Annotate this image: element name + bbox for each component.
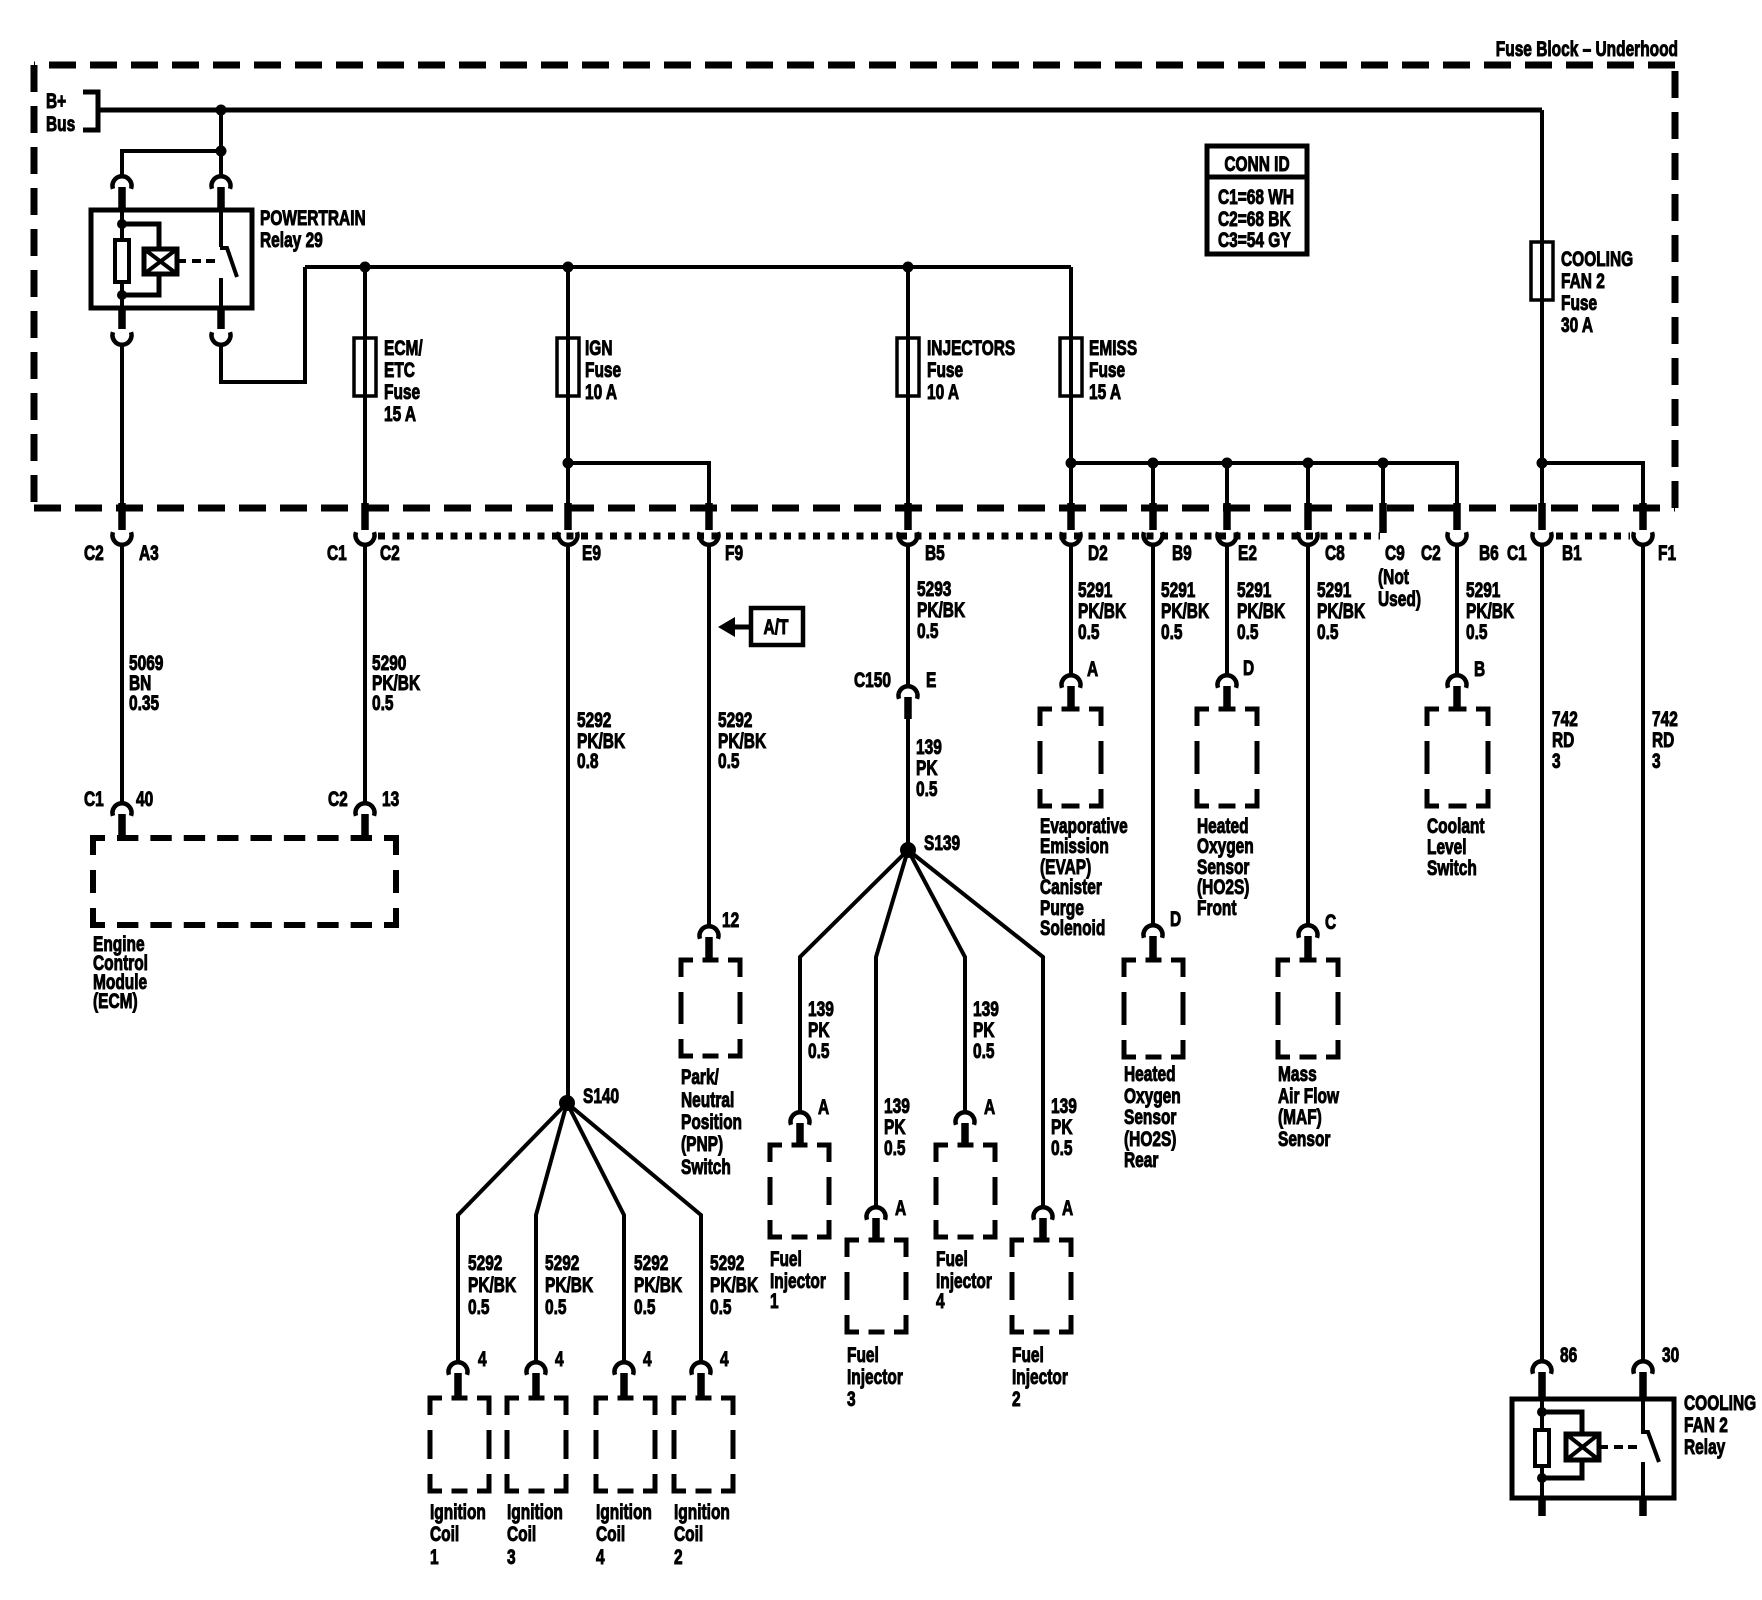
connector fuel injector 2 pin A: [1034, 1195, 1074, 1241]
svg-text:Ignition: Ignition: [674, 1499, 730, 1523]
connector fan relay pin 30: [1634, 1342, 1680, 1400]
svg-text:B9: B9: [1172, 540, 1192, 564]
connector ignition coil 2 pin 4: [692, 1346, 730, 1399]
svg-text:Fuel: Fuel: [770, 1246, 802, 1270]
label Fuel Injector 3: [847, 1342, 903, 1410]
wire S139 to fuel injector 3: [876, 850, 908, 1207]
label Fuel Injector 2: [1012, 1342, 1068, 1410]
label wire 139 PK 0.5 injector 4: [973, 996, 999, 1062]
connector pin D2 boundary: [1062, 503, 1108, 565]
relay 29 actuator dashed link: [177, 259, 186, 263]
svg-text:Fuel: Fuel: [1012, 1342, 1044, 1366]
MAF sensor box: [1278, 960, 1338, 1057]
label wire 5290 PK/BK 0.5: [372, 650, 421, 714]
label wire 742 RD 3 F1: [1652, 706, 1678, 772]
label wire 139 PK 0.5 injector 3: [884, 1093, 910, 1159]
wire ECM fuse drop: [363, 267, 367, 506]
svg-text:Solenoid: Solenoid: [1040, 915, 1105, 939]
wire 742 RD 3 B1 to fan relay: [1540, 543, 1544, 1361]
label wire 742 RD 3 B1: [1552, 706, 1578, 772]
svg-text:Fuse: Fuse: [585, 357, 621, 381]
svg-text:Coil: Coil: [596, 1521, 625, 1545]
svg-text:Used): Used): [1378, 586, 1421, 610]
connector relay switch pin top: [212, 176, 231, 210]
wire 5291 E2 to HO2S front: [1225, 543, 1229, 675]
svg-text:ECM/: ECM/: [384, 335, 423, 359]
svg-text:Neutral: Neutral: [681, 1087, 734, 1111]
coolant level switch box: [1427, 709, 1488, 806]
svg-text:D2: D2: [1088, 540, 1108, 564]
junction C8 drop: [1303, 458, 1314, 469]
splice S140: [559, 1083, 619, 1111]
label wire 5291 PK/BK 0.5 E2: [1237, 577, 1286, 643]
wire IGN fuse drop: [566, 267, 570, 506]
svg-text:5292: 5292: [634, 1250, 668, 1274]
wire 742 RD 3 F1 to fan relay: [1641, 543, 1645, 1361]
junction ECM fuse feed: [360, 262, 371, 273]
svg-text:IGN: IGN: [585, 335, 613, 359]
svg-text:EMISS: EMISS: [1089, 335, 1137, 359]
svg-text:Rear: Rear: [1124, 1147, 1158, 1171]
svg-text:1: 1: [770, 1288, 779, 1312]
label wire 5292 PK/BK 0.8: [577, 707, 626, 772]
svg-text:(Not: (Not: [1378, 564, 1409, 588]
svg-text:2: 2: [674, 1544, 683, 1568]
node B+ Bus bracket: [46, 88, 98, 135]
svg-text:C2: C2: [84, 540, 104, 564]
connector fuel injector 4 pin A: [956, 1094, 996, 1146]
svg-text:4: 4: [596, 1544, 605, 1568]
label wire 139 PK 0.5 injector 1: [808, 996, 834, 1062]
junction coil bottom: [117, 290, 127, 300]
svg-text:C2: C2: [328, 786, 348, 810]
label Mass Air Flow (MAF) Sensor: [1278, 1061, 1339, 1150]
svg-text:S140: S140: [583, 1083, 619, 1107]
svg-text:5292: 5292: [545, 1250, 579, 1274]
connector ECM pin C2 13: [328, 786, 399, 839]
svg-text:CONN ID: CONN ID: [1224, 151, 1289, 175]
junction B9 drop: [1148, 458, 1159, 469]
svg-text:40: 40: [136, 786, 153, 810]
svg-text:C1: C1: [84, 786, 104, 810]
fan relay bottom stub 87: [1639, 1498, 1647, 1516]
svg-text:A: A: [984, 1094, 996, 1118]
svg-text:COOLING: COOLING: [1684, 1390, 1756, 1414]
connector C2 pin B6 C1 boundary: [1421, 503, 1527, 565]
svg-text:Mass: Mass: [1278, 1061, 1317, 1085]
label wire 5292 coil 1: [468, 1250, 517, 1318]
fuse ECM/ETC 15A: [354, 335, 423, 425]
label wire 5291 PK/BK 0.5 B9: [1161, 577, 1210, 643]
svg-text:S139: S139: [924, 830, 960, 854]
svg-text:Position: Position: [681, 1109, 742, 1133]
connector ignition coil 3 pin 4: [527, 1346, 565, 1399]
svg-text:4: 4: [720, 1346, 729, 1370]
junction relay coil feed: [216, 146, 227, 157]
svg-text:COOLING: COOLING: [1561, 246, 1633, 270]
wire C9 drop: [1381, 463, 1385, 506]
connector relay coil pin bottom: [113, 308, 132, 345]
HO2S front box: [1197, 709, 1257, 806]
label wire 5292 coil 2: [710, 1250, 759, 1318]
connector pin F1 boundary: [1634, 503, 1677, 565]
junction C9 drop: [1378, 458, 1389, 469]
label Ignition Coil 2: [674, 1499, 730, 1568]
svg-text:PK/BK: PK/BK: [545, 1272, 594, 1296]
svg-text:Relay: Relay: [1684, 1434, 1726, 1458]
relay K1 POWERTRAIN Relay 29: [91, 210, 252, 308]
wire 5292 PK/BK 0.8 E9 to S140: [566, 543, 570, 1100]
connector pin E9 boundary: [559, 503, 601, 565]
svg-text:F9: F9: [725, 540, 743, 564]
relay 29 solenoid coil symbol: [144, 249, 177, 274]
svg-text:0.5: 0.5: [917, 618, 939, 642]
junction cooling fan branch: [1537, 458, 1548, 469]
fuel injector 2 box: [1012, 1240, 1071, 1332]
svg-text:0.5: 0.5: [634, 1294, 656, 1318]
wire IGN branch to F9: [568, 463, 709, 506]
connector pin B1 boundary: [1533, 503, 1582, 565]
dotted harness connector line: [378, 533, 1380, 540]
connector coolant level switch pin B: [1448, 656, 1486, 710]
svg-text:D: D: [1170, 906, 1181, 930]
label Ignition Coil 1: [430, 1499, 486, 1568]
svg-text:0.5: 0.5: [1051, 1135, 1073, 1159]
svg-text:Fuse: Fuse: [1561, 290, 1597, 314]
wire 5293 PK/BK B5 to C150: [906, 543, 910, 686]
svg-text:Fuse: Fuse: [384, 379, 420, 403]
svg-text:A: A: [818, 1094, 830, 1118]
fan relay actuator dashed link: [1599, 1445, 1608, 1449]
fuse EMISS 15A: [1060, 335, 1137, 403]
label wire 5291 PK/BK 0.5 B6: [1466, 577, 1515, 643]
svg-text:Injector: Injector: [1012, 1364, 1068, 1388]
svg-text:15 A: 15 A: [384, 401, 416, 425]
connector pin C8 boundary: [1299, 503, 1345, 565]
svg-text:Heated: Heated: [1124, 1061, 1176, 1085]
connector relay coil pin top: [113, 176, 132, 210]
svg-text:C1=68 WH: C1=68 WH: [1218, 184, 1294, 208]
wire 5292 PK/BK 0.5 F9 to PNP: [707, 543, 711, 926]
wire EMISS manifold: [1071, 463, 1457, 506]
svg-text:INJECTORS: INJECTORS: [927, 335, 1015, 359]
wire bus to relay switch pin: [219, 110, 223, 176]
svg-text:4: 4: [936, 1288, 945, 1312]
svg-text:PK/BK: PK/BK: [634, 1272, 683, 1296]
fuel injector 4 box: [936, 1145, 995, 1237]
label wire 5293 PK/BK 0.5: [917, 576, 966, 642]
connector pin E2 boundary: [1218, 503, 1257, 565]
wire INJECTORS fuse drop: [906, 267, 910, 506]
wire B+ bus: [98, 108, 1542, 113]
svg-text:3: 3: [847, 1386, 856, 1410]
svg-text:13: 13: [382, 786, 399, 810]
wire fan relay solenoid branch top: [1542, 1412, 1582, 1434]
svg-text:F1: F1: [1658, 540, 1676, 564]
wire COOLING FAN 2 fuse drop: [1540, 242, 1544, 506]
connector HO2S front pin D: [1218, 655, 1255, 710]
PNP switch box: [681, 960, 740, 1056]
junction EMISS manifold: [1066, 458, 1077, 469]
svg-text:0.5: 0.5: [884, 1135, 906, 1159]
svg-text:12: 12: [722, 907, 739, 931]
svg-text:Coil: Coil: [430, 1521, 459, 1545]
svg-text:0.5: 0.5: [372, 690, 394, 714]
svg-text:Fuel: Fuel: [847, 1342, 879, 1366]
connector PNP pin 12: [700, 907, 740, 961]
svg-text:3: 3: [507, 1544, 516, 1568]
junction bus to relay: [216, 105, 227, 116]
svg-text:0.35: 0.35: [129, 690, 159, 714]
connector C2 pin A3 boundary: [84, 503, 159, 565]
svg-text:1: 1: [430, 1544, 439, 1568]
fan relay bottom stub 85: [1538, 1498, 1546, 1516]
label Heated Oxygen Sensor (HO2S) Front: [1197, 813, 1254, 919]
svg-text:A: A: [895, 1195, 907, 1219]
svg-text:0.5: 0.5: [1317, 619, 1339, 643]
wire S139 to fuel injector 2: [908, 850, 1043, 1207]
fuel injector 1 box: [770, 1145, 829, 1237]
svg-text:0.5: 0.5: [916, 776, 938, 800]
svg-text:(PNP): (PNP): [681, 1131, 723, 1155]
connector pin B5 boundary: [899, 503, 945, 565]
svg-text:0.5: 0.5: [1237, 619, 1259, 643]
wire bus drop to cooling fan fuse: [1540, 110, 1544, 242]
label Engine Control Module (ECM): [93, 931, 148, 1012]
svg-text:5292: 5292: [468, 1250, 502, 1274]
fan relay switch: [1641, 1399, 1659, 1498]
ignition coil 1 box: [430, 1398, 489, 1491]
wire S139 to fuel injector 4: [908, 850, 965, 1112]
label wire 5292 coil 4: [634, 1250, 683, 1318]
label wire 139 PK 0.5: [916, 734, 942, 800]
svg-text:3: 3: [1552, 748, 1561, 772]
svg-text:Front: Front: [1197, 895, 1237, 919]
connector MAF pin C: [1299, 909, 1337, 961]
wire relay 29 solenoid branch top: [122, 224, 159, 249]
svg-text:Fuse: Fuse: [927, 357, 963, 381]
A/T tag with arrow: [718, 608, 803, 645]
label Heated Oxygen Sensor (HO2S) Rear: [1124, 1061, 1181, 1171]
svg-text:Fuse Block – Underhood: Fuse Block – Underhood: [1496, 36, 1678, 60]
connector EVAP pin A: [1062, 656, 1099, 710]
svg-text:Ignition: Ignition: [596, 1499, 652, 1523]
wire 5291 B6 to coolant level switch: [1455, 543, 1459, 675]
wire C8 drop: [1306, 463, 1310, 506]
svg-text:C2: C2: [380, 540, 400, 564]
svg-text:0.5: 0.5: [545, 1294, 567, 1318]
svg-text:FAN 2: FAN 2: [1561, 268, 1605, 292]
label Fuel Injector 1: [770, 1246, 826, 1312]
label Ignition Coil 3: [507, 1499, 563, 1568]
svg-text:Coil: Coil: [507, 1521, 536, 1545]
svg-text:0.5: 0.5: [1078, 619, 1100, 643]
svg-text:POWERTRAIN: POWERTRAIN: [260, 205, 366, 229]
CONN ID table: [1207, 146, 1307, 254]
wire 5291 C8 to MAF: [1306, 543, 1310, 925]
fuel injector 3 box: [847, 1240, 906, 1332]
svg-text:B6: B6: [1479, 540, 1499, 564]
wire S139 to fuel injector 1: [800, 850, 908, 1112]
svg-text:C1: C1: [327, 540, 347, 564]
wire fuse feed bus: [305, 265, 1071, 269]
wire cooling fan branch to F1: [1542, 463, 1643, 506]
wire relay coil feed: [122, 151, 221, 176]
resistor fan relay: [1535, 1430, 1549, 1466]
junction E2 drop: [1222, 458, 1233, 469]
relay K2 COOLING FAN 2 Relay: [1512, 1399, 1674, 1498]
svg-text:Relay 29: Relay 29: [260, 227, 323, 251]
label Ignition Coil 4: [596, 1499, 652, 1568]
wire 5290 PK/BK to ECM C2-13: [363, 543, 367, 803]
junction fan relay coil top: [1537, 1407, 1547, 1417]
svg-text:5292: 5292: [710, 1250, 744, 1274]
wire 5291 B9 to HO2S rear: [1151, 543, 1155, 925]
fan relay solenoid coil symbol: [1566, 1434, 1599, 1460]
svg-text:Switch: Switch: [681, 1154, 731, 1178]
svg-text:E2: E2: [1238, 540, 1257, 564]
svg-text:Coil: Coil: [674, 1521, 703, 1545]
svg-text:C3=54 GY: C3=54 GY: [1218, 227, 1291, 251]
connector C150 pin E: [854, 667, 936, 719]
svg-text:0.5: 0.5: [808, 1038, 830, 1062]
svg-text:0.5: 0.5: [718, 748, 740, 772]
fuse COOLING FAN 2 30A: [1531, 242, 1633, 337]
label wire 5292 coil 3: [545, 1250, 594, 1318]
svg-text:3: 3: [1652, 748, 1661, 772]
svg-text:A/T: A/T: [764, 614, 789, 638]
splice S139: [900, 830, 960, 858]
ECM Engine Control Module box: [93, 838, 396, 925]
svg-text:Park/: Park/: [681, 1064, 719, 1088]
svg-text:ETC: ETC: [384, 357, 415, 381]
svg-text:Ignition: Ignition: [430, 1499, 486, 1523]
label POWERTRAIN Relay 29: [260, 205, 366, 251]
connector fan relay pin 86: [1533, 1342, 1578, 1400]
connector C1 pin C2 boundary: [327, 503, 400, 565]
wire S140 to ignition coil 2: [567, 1103, 701, 1362]
svg-text:A3: A3: [139, 540, 159, 564]
svg-text:B1: B1: [1562, 540, 1582, 564]
svg-text:0.5: 0.5: [1161, 619, 1183, 643]
wire E2 drop: [1225, 463, 1229, 506]
label wire 5292 PK/BK 0.5 F9: [718, 707, 767, 772]
connector pin C9 not used: [1378, 503, 1421, 611]
wire relay coil output to A3: [120, 343, 124, 506]
svg-text:4: 4: [478, 1346, 487, 1370]
wire S140 to ignition coil 1: [458, 1103, 567, 1362]
svg-text:D: D: [1243, 655, 1254, 679]
wire 139 PK 0.5 C150 to S139: [906, 719, 910, 850]
label wire 5291 PK/BK 0.5 C8: [1317, 577, 1366, 643]
svg-text:10 A: 10 A: [927, 379, 959, 403]
junction coil top: [117, 219, 127, 229]
fuse IGN 10A: [557, 335, 621, 403]
svg-text:C: C: [1325, 909, 1336, 933]
connector ignition coil 4 pin 4: [615, 1346, 653, 1399]
svg-text:(ECM): (ECM): [93, 988, 138, 1012]
svg-text:Fuse: Fuse: [1089, 357, 1125, 381]
svg-text:B: B: [1474, 656, 1485, 680]
svg-text:FAN 2: FAN 2: [1684, 1412, 1728, 1436]
ignition coil 4 box: [596, 1398, 655, 1491]
HO2S rear box: [1124, 960, 1183, 1057]
svg-text:E9: E9: [582, 540, 601, 564]
connector ECM pin C1 40: [84, 786, 153, 839]
wire S140 to ignition coil 3: [536, 1103, 567, 1362]
svg-text:C2: C2: [1421, 540, 1441, 564]
connector pin F9 boundary: [700, 503, 744, 565]
svg-text:0.5: 0.5: [973, 1038, 995, 1062]
svg-text:Ignition: Ignition: [507, 1499, 563, 1523]
svg-text:C9: C9: [1385, 540, 1405, 564]
connector fuel injector 3 pin A: [867, 1195, 907, 1241]
svg-text:B+: B+: [46, 88, 66, 112]
wire 5069 BN to ECM C1-40: [120, 543, 124, 803]
wire fan relay coil leg: [1540, 1399, 1544, 1498]
svg-text:C8: C8: [1325, 540, 1345, 564]
svg-text:0.5: 0.5: [710, 1294, 732, 1318]
svg-text:30: 30: [1662, 1342, 1679, 1366]
svg-text:C150: C150: [854, 667, 891, 691]
svg-text:0.5: 0.5: [1466, 619, 1488, 643]
label COOLING FAN 2 Relay: [1684, 1390, 1756, 1458]
ignition coil 2 box: [674, 1398, 733, 1491]
wire 5291 D2 to EVAP: [1069, 543, 1073, 675]
label Park/Neutral Position (PNP) Switch: [681, 1064, 742, 1178]
svg-text:A: A: [1062, 1195, 1074, 1219]
svg-text:15 A: 15 A: [1089, 379, 1121, 403]
label wire 139 PK 0.5 injector 2: [1051, 1093, 1077, 1159]
wire relay switch output jog: [221, 267, 305, 382]
junction fan relay coil bottom: [1537, 1473, 1547, 1483]
svg-text:B5: B5: [925, 540, 945, 564]
svg-text:C1: C1: [1507, 540, 1527, 564]
svg-text:2: 2: [1012, 1386, 1021, 1410]
svg-text:Bus: Bus: [46, 111, 75, 135]
wire relay 29 solenoid branch bottom: [122, 274, 159, 295]
connector pin B9 boundary: [1144, 503, 1192, 565]
svg-text:Fuel: Fuel: [936, 1246, 968, 1270]
svg-text:Sensor: Sensor: [1124, 1104, 1176, 1128]
label Fuel Injector 4: [936, 1246, 992, 1312]
svg-text:Switch: Switch: [1427, 855, 1477, 879]
wire fan relay solenoid branch bottom: [1542, 1460, 1582, 1478]
label Coolant Level Switch: [1427, 813, 1485, 879]
junction INJECTORS fuse feed: [903, 262, 914, 273]
junction IGN fuse feed: [563, 262, 574, 273]
svg-text:4: 4: [555, 1346, 564, 1370]
svg-text:PK/BK: PK/BK: [468, 1272, 517, 1296]
svg-text:(MAF): (MAF): [1278, 1104, 1322, 1128]
svg-text:86: 86: [1560, 1342, 1577, 1366]
fuse block underhood dashed border: [34, 65, 1675, 508]
connector ignition coil 1 pin 4: [449, 1346, 488, 1399]
svg-text:Injector: Injector: [847, 1364, 903, 1388]
svg-text:Sensor: Sensor: [1278, 1126, 1330, 1150]
svg-text:0.5: 0.5: [468, 1294, 490, 1318]
ignition coil 3 box: [507, 1398, 566, 1491]
svg-text:4: 4: [643, 1346, 652, 1370]
junction IGN branch: [563, 458, 574, 469]
EVAP canister purge solenoid box: [1040, 709, 1101, 806]
wire EMISS fuse drop: [1069, 267, 1073, 506]
svg-text:0.8: 0.8: [577, 748, 599, 772]
label wire 5069 BN 0.35: [129, 650, 163, 714]
relay 29 switch: [220, 210, 237, 308]
svg-text:10 A: 10 A: [585, 379, 617, 403]
label wire 5291 PK/BK 0.5 D2: [1078, 577, 1127, 643]
